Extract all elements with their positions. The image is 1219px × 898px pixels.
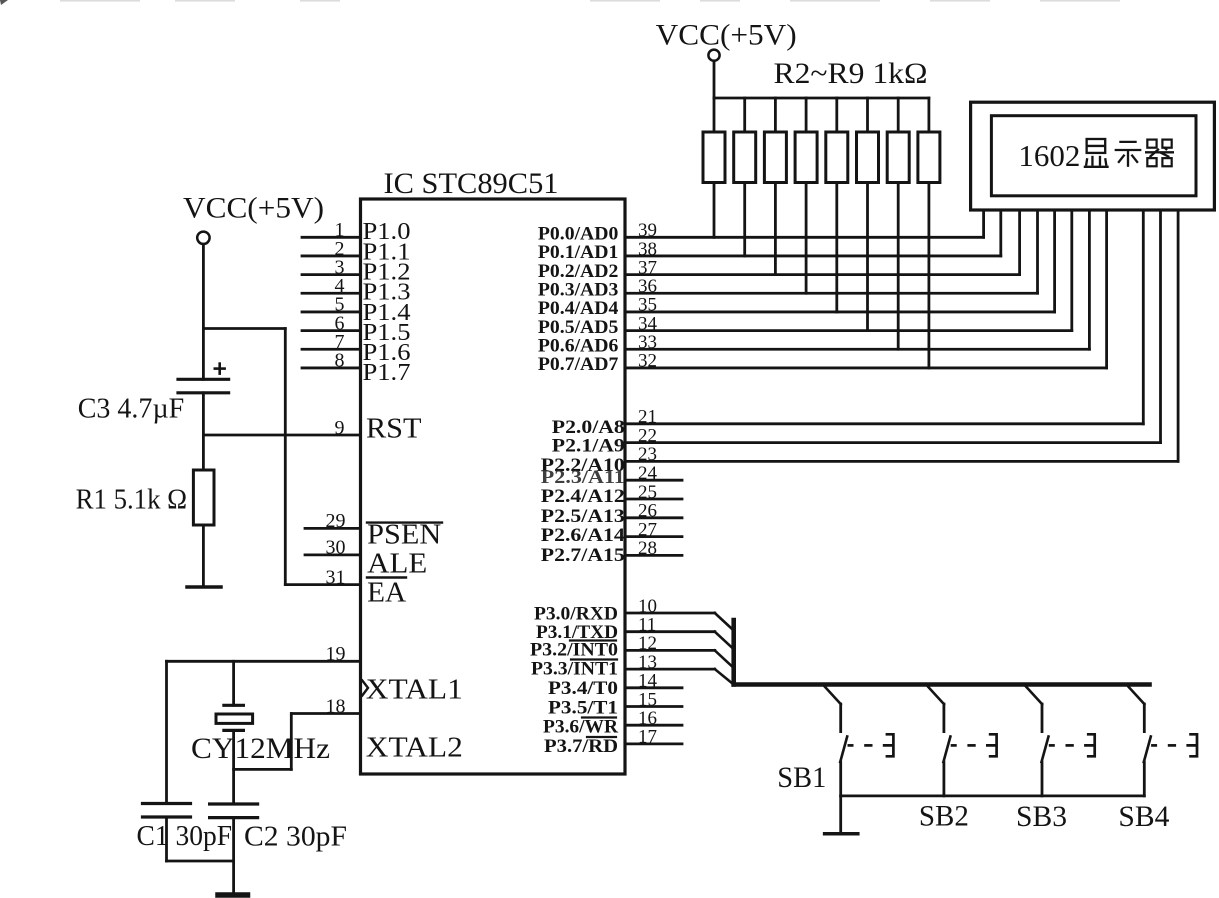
pin 21 wire (P2.0/A8) to 1602 bbox=[625, 422, 1143, 425]
resistor R9 bbox=[918, 132, 940, 183]
EA overbar bbox=[367, 576, 406, 578]
wire bus to resistor R2 bbox=[713, 98, 716, 132]
capacitor C3 bottom plate bbox=[178, 391, 229, 394]
svg-text:18: 18 bbox=[326, 695, 346, 717]
pin 35 wire (P0.4/AD4) to 1602 bbox=[625, 311, 1055, 314]
WR overline bbox=[582, 716, 616, 718]
svg-text:C1 30pF: C1 30pF bbox=[137, 821, 233, 852]
svg-text:P2.7/A15: P2.7/A15 bbox=[541, 545, 625, 566]
svg-text:P2.3/A11: P2.3/A11 bbox=[541, 467, 625, 488]
resistor R2 bbox=[703, 132, 725, 183]
wire bus to resistor R9 bbox=[928, 98, 931, 132]
wire C1 bottom down bbox=[165, 817, 168, 861]
svg-text:XTAL1: XTAL1 bbox=[366, 674, 463, 706]
ground bar below C2 bbox=[218, 892, 248, 898]
VCC terminal circle top bbox=[708, 50, 719, 61]
bus entry diagonal pin 11 bbox=[715, 632, 734, 650]
1602 display label CJK qi bbox=[1145, 140, 1174, 167]
pin 31 wire (EA) bbox=[285, 583, 360, 586]
capacitor C3 plus sign bbox=[215, 367, 225, 370]
wire 1602 data line 2 down to P0.2 bbox=[1018, 210, 1021, 275]
wire bus to resistor R3 bbox=[743, 98, 746, 132]
button SB4 moving contact bbox=[1144, 737, 1151, 763]
capacitor C1 top plate bbox=[143, 802, 191, 805]
button SB1 top lead wire bbox=[839, 704, 842, 732]
VCC terminal circle left bbox=[197, 232, 209, 244]
wire resistor R8 to P0.6 line bbox=[897, 183, 900, 350]
button SB4 top lead wire bbox=[1143, 704, 1146, 732]
wire vertical to pin 31 bbox=[284, 329, 287, 585]
pin 34 wire (P0.5/AD5) to 1602 bbox=[625, 329, 1072, 332]
pin 30 wire (ALE) bbox=[305, 554, 361, 557]
button SB1 moving contact bbox=[840, 737, 847, 763]
bus entry diagonal pin 10 bbox=[715, 613, 734, 631]
wire pin19 to crystal branch bbox=[165, 661, 168, 803]
button SB2 actuator head bracket bbox=[986, 734, 997, 756]
pin 1 wire (P1.0) bbox=[302, 236, 361, 239]
wire VCC down to C3 bbox=[202, 244, 205, 379]
crystal CY bottom plate bbox=[224, 729, 244, 732]
pin 15 wire (P3.5/T1) stub bbox=[625, 705, 682, 708]
button SB1 actuator dashed link bbox=[848, 744, 854, 747]
wire 1602 data line 3 down to P0.3 bbox=[1036, 210, 1039, 293]
wire pin18 jog vertical bbox=[290, 714, 293, 770]
capacitor C3 top plate bbox=[178, 378, 229, 381]
pin 11 wire (P3.1/TXD) bbox=[625, 630, 715, 633]
pin 8 wire (P1.7) bbox=[302, 367, 361, 370]
svg-text:32: 32 bbox=[638, 351, 657, 372]
pin 17 wire (P3.7/RD) stub bbox=[625, 743, 682, 746]
resistor network top bus bbox=[714, 97, 929, 100]
pin 4 wire (P1.3) bbox=[302, 292, 361, 295]
svg-text:VCC(+5V): VCC(+5V) bbox=[656, 19, 797, 52]
pin 7 wire (P1.6) bbox=[302, 348, 361, 351]
bus horizontal thick bar bbox=[734, 682, 1150, 687]
pin 24 wire (P2.3/A11) stub bbox=[625, 479, 682, 482]
pin 5 wire (P1.4) bbox=[302, 311, 361, 314]
bus entry diagonal pin 12 bbox=[715, 650, 734, 668]
wire bus to resistor R7 bbox=[866, 98, 869, 132]
PSEN overbar bbox=[367, 521, 442, 523]
wire bus to resistor R6 bbox=[835, 98, 838, 132]
wire 1602 data line 7 down to P0.7 bbox=[1105, 210, 1108, 368]
svg-text:19: 19 bbox=[326, 643, 346, 665]
resistor R7 bbox=[857, 132, 879, 183]
scan artifact top-left corner bbox=[0, 0, 8, 5]
pin 29 wire (PSEN) bbox=[305, 527, 361, 530]
pin 28 wire (P2.7/A15) stub bbox=[625, 554, 682, 557]
button SB3 bottom lead wire bbox=[1041, 762, 1044, 796]
pin 13 wire (P3.3/INT1) bbox=[625, 668, 715, 671]
resistor R1 bbox=[193, 470, 214, 525]
1602 display label CJK xian bbox=[1084, 139, 1109, 167]
svg-text:P3.5/T1: P3.5/T1 bbox=[548, 698, 618, 719]
button SB4 bottom lead wire bbox=[1143, 762, 1146, 796]
wire resistor R2 to P0.0 line bbox=[713, 183, 716, 238]
1602 display label CJK shi bbox=[1115, 142, 1142, 167]
wire crystal bottom down bbox=[232, 730, 235, 804]
INT1 overline bbox=[571, 658, 617, 660]
svg-text:R1 5.1k Ω: R1 5.1k Ω bbox=[76, 485, 188, 516]
wire 1602 control line down to P2.1 bbox=[1159, 210, 1162, 443]
svg-text:29: 29 bbox=[326, 510, 346, 532]
scan artifact top edge marks bbox=[60, 0, 1120, 2]
buttons common bottom wire bbox=[841, 795, 1145, 798]
pin 33 wire (P0.6/AD6) to 1602 bbox=[625, 348, 1089, 351]
pin 9 wire (RST) bbox=[203, 434, 360, 437]
wire 1602 data line 0 down to P0.0 bbox=[982, 210, 985, 237]
wire bus to resistor R4 bbox=[774, 98, 777, 132]
pin 18 wire (XTAL2) bbox=[292, 712, 361, 715]
wire 1602 data line 4 down to P0.4 bbox=[1053, 210, 1056, 312]
button SB1 bottom lead wire bbox=[839, 762, 842, 796]
wire 1602 data line 5 down to P0.5 bbox=[1070, 210, 1073, 331]
svg-text:P3.3/INT1: P3.3/INT1 bbox=[531, 659, 618, 680]
button SB1 bus entry diagonal bbox=[824, 686, 841, 705]
svg-text:P3.4/T0: P3.4/T0 bbox=[548, 678, 618, 699]
wire VCC to resistor bus bbox=[713, 61, 716, 98]
wire resistor R7 to P0.5 line bbox=[866, 183, 869, 331]
svg-text:P2.4/A12: P2.4/A12 bbox=[541, 486, 625, 507]
svg-text:P3.6/WR: P3.6/WR bbox=[543, 717, 618, 738]
svg-text:SB4: SB4 bbox=[1118, 800, 1169, 833]
svg-text:28: 28 bbox=[638, 538, 657, 559]
wire resistor R3 to P0.1 line bbox=[743, 183, 746, 256]
svg-text:P3.2/INT0: P3.2/INT0 bbox=[530, 640, 618, 661]
wire C1 to C2 bottom junction bbox=[167, 860, 234, 863]
RD overline bbox=[587, 736, 616, 738]
svg-text:P2.6/A14: P2.6/A14 bbox=[541, 525, 626, 546]
capacitor C2 bottom plate bbox=[210, 816, 258, 819]
svg-text:SB3: SB3 bbox=[1016, 800, 1067, 833]
button SB3 moving contact bbox=[1042, 737, 1049, 763]
wire resistor R5 to P0.3 line bbox=[805, 183, 808, 294]
pin 38 wire (P0.1/AD1) to 1602 bbox=[625, 255, 1001, 258]
button SB2 top lead wire bbox=[943, 704, 946, 732]
pin 37 wire (P0.2/AD2) to 1602 bbox=[625, 273, 1020, 276]
pin 16 wire (P3.6/WR) stub bbox=[625, 724, 682, 727]
svg-text:8: 8 bbox=[335, 350, 345, 372]
svg-text:EA: EA bbox=[367, 577, 406, 609]
ground bar below R1 bbox=[187, 585, 221, 589]
1602 display outer box bbox=[971, 102, 1215, 210]
pin 3 wire (P1.2) bbox=[302, 273, 361, 276]
capacitor C2 top plate bbox=[210, 802, 258, 805]
button SB4 actuator head bracket bbox=[1186, 734, 1197, 756]
svg-text:ALE: ALE bbox=[367, 548, 427, 580]
button SB3 actuator dashed link bbox=[1049, 744, 1055, 747]
resistor R3 bbox=[734, 132, 756, 183]
resistor R8 bbox=[887, 132, 909, 183]
svg-text:C2 30pF: C2 30pF bbox=[244, 822, 347, 853]
svg-text:IC STC89C51: IC STC89C51 bbox=[384, 167, 559, 200]
pin 22 wire (P2.1/A9) to 1602 bbox=[625, 441, 1161, 444]
bus vertical thick bar bbox=[731, 620, 736, 685]
svg-text:SB1: SB1 bbox=[777, 761, 826, 794]
wire 1602 data line 1 down to P0.1 bbox=[999, 210, 1002, 256]
wire R1 to ground bbox=[202, 525, 205, 586]
pin 36 wire (P0.3/AD3) to 1602 bbox=[625, 292, 1038, 295]
button SB2 bottom lead wire bbox=[943, 762, 946, 796]
resistor R5 bbox=[795, 132, 817, 183]
button SB2 bus entry diagonal bbox=[927, 686, 944, 705]
button SB4 bus entry diagonal bbox=[1127, 686, 1144, 705]
svg-text:30: 30 bbox=[326, 537, 346, 559]
svg-text:P3.7/RD: P3.7/RD bbox=[544, 736, 618, 757]
pin 2 wire (P1.1) bbox=[302, 255, 361, 258]
bus entry diagonal pin 13 bbox=[715, 669, 734, 684]
svg-text:R2~R9 1kΩ: R2~R9 1kΩ bbox=[774, 57, 928, 90]
wire 1602 data line 6 down to P0.6 bbox=[1088, 210, 1091, 349]
1602 display inner box bbox=[991, 116, 1196, 196]
crystal CY top plate bbox=[224, 704, 244, 707]
wire resistor R9 to P0.7 line bbox=[928, 183, 931, 368]
svg-text:VCC(+5V): VCC(+5V) bbox=[183, 192, 324, 225]
resistor R6 bbox=[826, 132, 848, 183]
crystal CY body bbox=[216, 714, 253, 723]
button SB3 actuator head bracket bbox=[1084, 734, 1095, 756]
wire crystal to pin18 jog horizontal bbox=[234, 768, 292, 771]
wire resistor R6 to P0.4 line bbox=[835, 183, 838, 312]
button SB3 top lead wire bbox=[1041, 704, 1044, 732]
button SB3 bus entry diagonal bbox=[1025, 686, 1042, 705]
pin 6 wire (P1.5) bbox=[302, 329, 361, 332]
pin 27 wire (P2.6/A14) stub bbox=[625, 535, 682, 538]
pin 23 wire (P2.2/A10) to 1602 bbox=[625, 460, 1178, 463]
button SB2 actuator dashed link bbox=[951, 744, 957, 747]
pin 10 wire (P3.0/RXD) bbox=[625, 612, 715, 615]
wire SB1 to ground bbox=[839, 796, 842, 833]
pin 32 wire (P0.7/AD7) to 1602 bbox=[625, 367, 1107, 370]
INT0 overline bbox=[570, 639, 616, 641]
pin 12 wire (P3.2/INT0) bbox=[625, 649, 715, 652]
button SB1 actuator head bracket bbox=[883, 734, 894, 756]
svg-text:P0.7/AD7: P0.7/AD7 bbox=[538, 354, 619, 375]
svg-text:C3 4.7µF: C3 4.7µF bbox=[78, 393, 185, 425]
pin 25 wire (P2.4/A12) stub bbox=[625, 498, 682, 501]
pin 39 wire (P0.0/AD0) to 1602 bbox=[625, 236, 984, 239]
resistor R4 bbox=[764, 132, 786, 183]
svg-text:P2.5/A13: P2.5/A13 bbox=[541, 506, 625, 527]
svg-text:SB2: SB2 bbox=[919, 800, 969, 833]
svg-text:RST: RST bbox=[366, 412, 422, 444]
wire 1602 control line down to P2.2 bbox=[1177, 210, 1180, 461]
wire resistor R4 to P0.2 line bbox=[774, 183, 777, 275]
wire 1602 control line down to P2.0 bbox=[1142, 210, 1145, 424]
wire C2 bottom to ground bbox=[232, 818, 235, 894]
button SB4 actuator dashed link bbox=[1151, 744, 1157, 747]
capacitor C1 bottom plate bbox=[143, 815, 191, 818]
svg-text:1602: 1602 bbox=[1018, 138, 1080, 173]
ground bar below SB1 bbox=[825, 832, 858, 836]
wire down to crystal top bbox=[232, 661, 235, 705]
pin 14 wire (P3.4/T0) stub bbox=[625, 686, 682, 689]
wire bus to resistor R5 bbox=[805, 98, 808, 132]
op-amp/IC U1 STC89C51 box bbox=[361, 199, 626, 774]
pin 19 wire (XTAL1) bbox=[167, 660, 361, 663]
svg-text:CY12MHz: CY12MHz bbox=[191, 732, 330, 765]
svg-text:31: 31 bbox=[326, 566, 346, 588]
svg-text:P1.7: P1.7 bbox=[363, 360, 411, 386]
wire bus to resistor R8 bbox=[897, 98, 900, 132]
XTAL1 clock chevron bbox=[362, 680, 369, 697]
button SB2 moving contact bbox=[943, 737, 950, 763]
wire jog VCC to EA vertical bbox=[203, 327, 285, 330]
svg-text:P2.1/A9: P2.1/A9 bbox=[552, 435, 625, 456]
svg-text:XTAL2: XTAL2 bbox=[366, 731, 463, 763]
svg-text:17: 17 bbox=[638, 727, 657, 748]
wire C3 to R1 bbox=[202, 393, 205, 470]
svg-text:9: 9 bbox=[335, 417, 345, 439]
pin 26 wire (P2.5/A13) stub bbox=[625, 516, 682, 519]
